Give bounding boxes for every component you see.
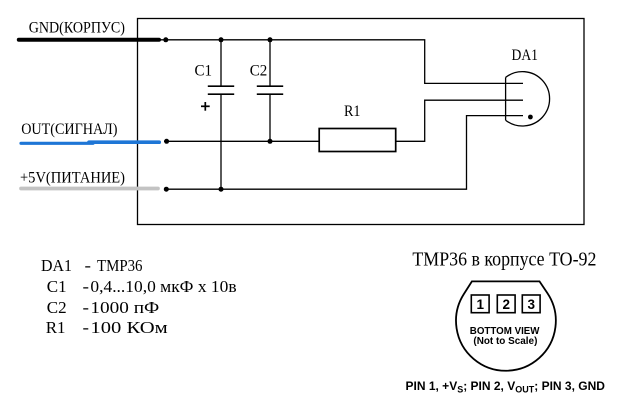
pin box 1 — [471, 295, 489, 313]
wire R1 output to DA1 pin 2 — [396, 100, 523, 141]
wire GND rail to DA1 pin 3 — [160, 40, 523, 84]
wire OUT blue lead segment 1 — [21, 142, 93, 145]
parts list line R1 — [46, 318, 168, 337]
parts list line C2 — [47, 298, 160, 317]
wire +5V rail to DA1 pin 1 — [164, 116, 523, 190]
resistor R1 — [319, 129, 396, 152]
node +5V wire joint — [164, 187, 169, 192]
svg-text:2: 2 — [502, 297, 510, 312]
svg-text:-: - — [85, 256, 92, 275]
svg-text:GND(КОРПУС): GND(КОРПУС) — [29, 20, 125, 37]
wire OUT line to R1 — [164, 140, 319, 142]
node C2 bottom junction — [268, 139, 273, 144]
wire GND thick lead — [19, 38, 159, 42]
parts list line C1 — [47, 277, 237, 296]
svg-text:-: - — [83, 277, 90, 296]
svg-text:DA1: DA1 — [512, 47, 539, 64]
svg-text:C2: C2 — [250, 62, 267, 79]
svg-text:R1: R1 — [344, 103, 361, 120]
capacitor C2 — [257, 40, 283, 142]
enclosure box — [138, 19, 585, 225]
pin box 2 — [497, 295, 515, 313]
svg-text:OUT(СИГНАЛ): OUT(СИГНАЛ) — [21, 121, 117, 138]
parts list line DA1 — [41, 256, 143, 275]
svg-text:-: - — [83, 298, 90, 317]
node C1 top junction — [219, 37, 224, 42]
svg-text:TMP36 в корпусе TO-92: TMP36 в корпусе TO-92 — [412, 249, 596, 271]
C1 polarity plus sign — [201, 102, 210, 111]
svg-text:DA1: DA1 — [41, 256, 72, 275]
node OUT wire joint — [164, 139, 169, 144]
svg-text:100 КОм: 100 КОм — [90, 318, 168, 337]
svg-text:C2: C2 — [47, 298, 67, 317]
node C1 bottom junction — [219, 187, 224, 192]
node GND wire joint — [163, 37, 168, 42]
node C2 top junction — [268, 37, 273, 42]
TO-92 package bottom-view outline — [456, 281, 556, 370]
wire +5V gray lead — [21, 187, 158, 191]
svg-text:R1: R1 — [46, 318, 66, 337]
svg-text:C1: C1 — [195, 62, 213, 79]
svg-text:3: 3 — [527, 297, 535, 312]
svg-text:-: - — [83, 318, 90, 337]
pin box 3 — [522, 295, 540, 313]
svg-text:+5V(ПИТАНИЕ): +5V(ПИТАНИЕ) — [20, 170, 125, 187]
svg-text:TMP36: TMP36 — [97, 256, 143, 275]
capacitor C1 — [208, 40, 234, 189]
svg-text:1000 пФ: 1000 пФ — [90, 298, 159, 317]
svg-text:0,4...10,0 мкФ х 10в: 0,4...10,0 мкФ х 10в — [90, 277, 236, 296]
svg-text:(Not to Scale): (Not to Scale) — [473, 336, 537, 347]
wire OUT blue lead segment 2 — [89, 140, 159, 144]
svg-text:1: 1 — [476, 297, 484, 312]
transistor-package DA1 (TO-92 outline) — [506, 72, 550, 126]
svg-text:C1: C1 — [47, 277, 67, 296]
DA1 key dot — [528, 115, 533, 120]
svg-text:PIN 1, +VS; PIN 2, VOUT; PIN 3: PIN 1, +VS; PIN 2, VOUT; PIN 3, GND — [406, 379, 606, 395]
